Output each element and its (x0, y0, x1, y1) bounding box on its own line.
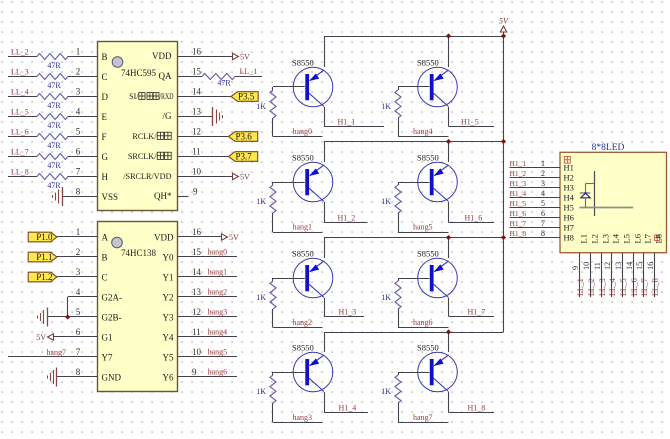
resistor 1K at Q6 base (395, 182, 401, 232)
svg-text:1K: 1K (381, 197, 391, 206)
resistor R5 47R (37, 134, 68, 140)
svg-text:/SRCLR/VDD: /SRCLR/VDD (123, 172, 171, 181)
svg-text:L8: L8 (654, 234, 664, 243)
svg-text:7: 7 (541, 219, 545, 228)
svg-text:1K: 1K (381, 293, 391, 302)
wire hang2 stub (273, 327, 323, 329)
svg-text:1K: 1K (256, 197, 266, 206)
svg-text:8: 8 (76, 186, 81, 196)
svg-text:hang4: hang4 (208, 328, 228, 337)
wire U2 pin7 Y7 hang7 (8, 356, 98, 358)
svg-text:H2: H2 (564, 172, 574, 182)
wire DS1 pin H8 (510, 237, 561, 239)
IC U2 74HC138 body (98, 222, 178, 392)
wire U1 pin14 to port P3.5 (178, 96, 232, 98)
wire DS1 pin L2 (590, 253, 592, 297)
svg-text:Y5: Y5 (163, 352, 174, 362)
wire emitter Q4 to rail (324, 332, 326, 352)
svg-text:14: 14 (192, 267, 202, 277)
wire 5V rail row 3 (324, 237, 504, 239)
wire DS1 pin L1 (579, 253, 581, 297)
U1 designator dot (112, 57, 123, 68)
wire base Q2 (273, 182, 305, 184)
wire DS1 pin H1 (510, 167, 561, 169)
wire U1 pin15 to R9 (178, 76, 203, 78)
svg-text:13: 13 (614, 262, 623, 270)
wire U2 pin4 G2A- (68, 296, 98, 298)
wire base Q5 (398, 86, 429, 88)
resistor 1K at Q7 base (395, 278, 401, 328)
svg-text:H1_6: H1_6 (510, 209, 527, 218)
svg-text:1K: 1K (381, 102, 391, 111)
svg-text:hang5: hang5 (413, 223, 433, 232)
wire collector Q1 (324, 107, 326, 127)
svg-text:12: 12 (192, 126, 201, 136)
svg-text:LL_8: LL_8 (651, 278, 660, 296)
svg-text:74HC595: 74HC595 (121, 68, 157, 78)
wire LL_6 to R5 (8, 136, 37, 138)
svg-text:1K: 1K (256, 102, 266, 111)
svg-text:E: E (102, 112, 108, 122)
svg-text:10: 10 (192, 347, 202, 357)
wire H1_2 (324, 222, 368, 224)
svg-text:5: 5 (76, 126, 81, 136)
svg-text:L4: L4 (611, 233, 621, 243)
svg-text:L5: L5 (622, 234, 632, 243)
wire H1_5 (449, 126, 495, 128)
junction bus row 2 (501, 139, 506, 144)
wire hang0 stub (273, 136, 323, 138)
svg-text:LL_5: LL_5 (11, 108, 29, 117)
transistor Q4 S8550 (293, 352, 333, 392)
svg-text:Y2: Y2 (163, 292, 174, 302)
junction rail3 right emitter (446, 235, 451, 240)
port P1.1 (28, 252, 57, 262)
svg-text:6: 6 (76, 327, 81, 337)
svg-text:H1_6: H1_6 (465, 213, 483, 222)
wire LL_2 to R1 (8, 56, 37, 58)
svg-text:16: 16 (192, 46, 202, 56)
wire P1.1 to U2 pin 2 (57, 256, 98, 258)
wire H1_1 (324, 126, 384, 128)
svg-text:3: 3 (541, 179, 545, 188)
wire base Q4 (273, 372, 305, 374)
svg-text:14: 14 (625, 262, 634, 270)
svg-text:5V: 5V (240, 173, 250, 182)
svg-text:13: 13 (192, 287, 202, 297)
svg-text:SI/: SI/ (129, 92, 139, 101)
svg-text:6: 6 (541, 209, 545, 218)
wire collector Q3 (324, 298, 326, 317)
svg-text:LL_2: LL_2 (587, 278, 596, 296)
svg-text:H1_1: H1_1 (338, 117, 356, 126)
svg-text:47R: 47R (47, 141, 61, 150)
transistor Q2 S8550 (293, 162, 333, 202)
wire emitter Q6 to rail (448, 142, 450, 163)
svg-text:Y6: Y6 (163, 372, 174, 382)
svg-text:1: 1 (76, 46, 81, 56)
svg-text:hang3: hang3 (208, 308, 228, 317)
svg-text:H7: H7 (564, 222, 574, 232)
resistor R1 47R (37, 54, 68, 60)
svg-text:hang3: hang3 (293, 413, 313, 422)
svg-text:2: 2 (76, 66, 81, 76)
svg-text:hang0: hang0 (208, 248, 228, 257)
svg-text:S8550: S8550 (417, 343, 439, 353)
svg-text:P1.1: P1.1 (36, 252, 52, 262)
wire 5V bus vertical (503, 32, 505, 332)
resistor R6 47R (37, 154, 68, 160)
wire DS1 pin L6 (633, 253, 635, 297)
wire H1_3 (324, 316, 364, 318)
svg-text:H1_5: H1_5 (461, 117, 479, 126)
wire DS1 pin H2 (510, 177, 561, 179)
wire U2 Y2 hang2 (178, 296, 238, 298)
wire U1 pin12 to port P3.6 (178, 136, 229, 138)
wire emitter Q3 to rail (324, 238, 326, 259)
svg-text:74HC138: 74HC138 (121, 248, 157, 258)
wire R9 to LL_1 (235, 76, 262, 78)
resistor 1K at Q3 base (270, 278, 276, 328)
svg-text:LL_4: LL_4 (608, 278, 617, 296)
svg-text:P3.7: P3.7 (236, 152, 253, 162)
svg-text:6: 6 (76, 146, 81, 156)
svg-text:47R: 47R (47, 81, 61, 90)
svg-text:8: 8 (541, 229, 545, 238)
port P3.6 (229, 132, 258, 142)
wire R5 to U1 pin 5 (68, 136, 98, 138)
svg-text:LL_7: LL_7 (11, 148, 29, 157)
svg-text:QH*: QH* (154, 191, 172, 201)
svg-text:3: 3 (76, 86, 81, 96)
wire hang4 stub (398, 136, 449, 138)
svg-text:H1_4: H1_4 (339, 403, 357, 412)
svg-text:H1_1: H1_1 (510, 159, 527, 168)
svg-text:Y7: Y7 (102, 352, 113, 362)
wire DS1 pin L8 (654, 253, 656, 297)
wire DS1 pin H7 (510, 227, 561, 229)
svg-text:1: 1 (541, 159, 545, 168)
svg-text:hang2: hang2 (293, 318, 313, 327)
svg-text:5V: 5V (499, 17, 509, 26)
svg-text:47R: 47R (47, 61, 61, 70)
wire U2 Y1 hang1 (178, 276, 238, 278)
svg-text:LL_6: LL_6 (11, 128, 29, 137)
port P1.0 (28, 232, 57, 242)
svg-text:hang1: hang1 (293, 223, 313, 232)
svg-text:H8: H8 (564, 232, 574, 242)
svg-text:VSS: VSS (102, 192, 119, 202)
svg-text:A: A (102, 232, 109, 242)
wire LL_4 to R3 (8, 96, 37, 98)
power port 5V at U2 pin16 (222, 234, 228, 240)
svg-text:LL_6: LL_6 (630, 278, 639, 296)
svg-text:hang5: hang5 (208, 348, 228, 357)
power port 5V top (500, 26, 506, 32)
resistor 1K at Q5 base (395, 87, 401, 137)
transistor Q5 S8550 (418, 67, 458, 107)
svg-text:15: 15 (635, 262, 644, 270)
wire U1 pin16 to 5V (178, 56, 233, 58)
resistor R3 47R (37, 94, 68, 100)
wire U2 pin8 GND (57, 376, 98, 378)
svg-text:9: 9 (571, 266, 580, 270)
svg-text:P1.0: P1.0 (36, 232, 53, 242)
wire LL_3 to R2 (8, 76, 37, 78)
svg-text:S8550: S8550 (292, 58, 314, 68)
wire DS1 pin H4 (510, 197, 561, 199)
wire base Q3 (273, 278, 305, 280)
junction rail4 right emitter (446, 329, 451, 334)
wire U2 pin16 to 5V (178, 236, 222, 238)
wire R4 to U1 pin 4 (68, 116, 98, 118)
wire DS1 pin L5 (622, 253, 624, 297)
DS1 row text (hang) (564, 157, 570, 164)
port P1.2 (28, 272, 57, 282)
svg-text:5V: 5V (229, 233, 239, 242)
svg-text:hang7: hang7 (46, 348, 66, 357)
wire 5V rail row 4 (324, 332, 504, 334)
svg-text:G: G (102, 152, 109, 162)
svg-text:L6: L6 (633, 234, 643, 243)
wire DS1 pin L3 (601, 253, 603, 297)
svg-text:SRCLK/: SRCLK/ (128, 152, 157, 161)
svg-text:1K: 1K (256, 293, 266, 302)
svg-text:F: F (102, 132, 107, 142)
svg-text:QA: QA (159, 71, 172, 81)
svg-text:S8550: S8550 (417, 249, 439, 259)
junction pin4/pin5 (65, 314, 70, 319)
wire DS1 pin H5 (510, 207, 561, 209)
transistor Q7 S8550 (418, 258, 458, 298)
wire emitter Q2 to rail (324, 142, 326, 163)
svg-text:13: 13 (192, 106, 202, 116)
svg-text:L3: L3 (601, 234, 611, 243)
svg-text:47R: 47R (47, 121, 61, 130)
LED matrix DS1 body 8*8LED (560, 152, 667, 252)
svg-text:P1.2: P1.2 (36, 272, 52, 282)
DS1 column text (lie) (655, 235, 660, 241)
wire H1_8 (449, 412, 495, 414)
svg-text:7: 7 (76, 166, 81, 176)
IC U1 74HC595 body (98, 42, 178, 211)
svg-text:VDD: VDD (152, 51, 172, 61)
junction bus row 3 (501, 235, 506, 240)
svg-text:Y0: Y0 (163, 252, 174, 262)
svg-text:1K: 1K (256, 387, 266, 396)
svg-text:hang4: hang4 (413, 127, 433, 136)
DS1 internal matrix column line (594, 171, 596, 216)
svg-text:14: 14 (192, 86, 202, 96)
wire base Q1 (273, 86, 305, 88)
transistor Q1 S8550 (293, 67, 333, 107)
wire U2 Y3 hang3 (178, 316, 238, 318)
power port 5V at U1 pin16 (233, 53, 239, 59)
ground at U2 GND (48, 368, 57, 387)
svg-text:15: 15 (192, 247, 202, 257)
svg-text:5: 5 (76, 307, 81, 317)
wire U2 pin5 G2B- (47, 316, 97, 318)
wire hang1 stub (273, 232, 323, 234)
wire P1.0 to U2 pin 1 (57, 236, 98, 238)
wire emitter Q8 to rail (448, 332, 450, 352)
svg-text:LL_5: LL_5 (619, 278, 628, 296)
svg-text:11: 11 (192, 327, 201, 337)
svg-text:H1_7: H1_7 (510, 219, 527, 228)
wire pin4 down to pin5 (67, 297, 69, 317)
svg-text:S8550: S8550 (292, 249, 314, 259)
resistor R2 47R (37, 74, 68, 80)
svg-text:hang7: hang7 (413, 413, 433, 422)
ground at U2 G2B- (38, 308, 48, 327)
wire collector Q8 (448, 392, 450, 413)
svg-text:H1_2: H1_2 (338, 213, 356, 222)
svg-text:Y3: Y3 (163, 312, 174, 322)
wire hang5 stub (398, 232, 449, 234)
svg-text:LL_3: LL_3 (11, 68, 29, 77)
svg-text:H3: H3 (564, 182, 574, 192)
svg-text:5: 5 (541, 199, 545, 208)
wire collector Q6 (448, 202, 450, 223)
svg-text:1: 1 (76, 227, 81, 237)
wire gnd to U1 pin 8 (62, 196, 97, 198)
wire collector Q7 (448, 298, 450, 317)
wire emitter Q5 to rail (448, 36, 450, 67)
wire emitter Q7 to rail (448, 238, 450, 259)
svg-text:C: C (102, 272, 108, 282)
DS1 internal LED element (580, 184, 595, 208)
svg-text:H: H (102, 172, 109, 182)
svg-text:S8550: S8550 (292, 153, 314, 163)
svg-text:47R: 47R (47, 101, 61, 110)
svg-text:9: 9 (192, 367, 197, 377)
resistor 1K at Q8 base (395, 372, 401, 423)
svg-text:Y1: Y1 (163, 272, 174, 282)
U2 designator dot (112, 237, 123, 248)
wire DS1 pin L4 (611, 253, 613, 297)
junction bus row 1 (501, 33, 506, 38)
wire stub U1 pin9 QH* (178, 196, 189, 198)
svg-text:8*8LED: 8*8LED (592, 143, 625, 153)
svg-text:hang1: hang1 (208, 268, 228, 277)
ground at U1 pin13 (213, 107, 223, 126)
wire H1_6 (449, 222, 495, 224)
port P3.7 (229, 152, 258, 162)
wire U2 pin6 G1 (54, 336, 98, 338)
svg-text:RCLK/: RCLK/ (132, 132, 157, 141)
resistor R9 47R (202, 74, 235, 80)
svg-text:H1: H1 (564, 162, 574, 172)
wire DS1 pin L7 (643, 253, 645, 297)
wire P1.2 to U2 pin 3 (57, 276, 98, 278)
svg-text:1K: 1K (381, 387, 391, 396)
svg-text:D: D (102, 92, 109, 102)
svg-text:/RXD: /RXD (159, 92, 173, 101)
svg-text:2: 2 (541, 169, 545, 178)
svg-text:S8550: S8550 (292, 343, 314, 353)
ground at U1 VSS (53, 187, 63, 206)
wire U2 Y0 hang0 (178, 256, 238, 258)
wire LL_5 to R4 (8, 116, 37, 118)
svg-text:G1: G1 (102, 332, 113, 342)
svg-text:P3.5: P3.5 (238, 92, 255, 102)
svg-text:11: 11 (593, 262, 602, 270)
svg-text:LL_1: LL_1 (240, 67, 258, 76)
svg-text:10: 10 (192, 166, 202, 176)
svg-text:H1_2: H1_2 (510, 169, 527, 178)
svg-text:B: B (102, 52, 108, 62)
svg-text:LL_2: LL_2 (11, 48, 29, 57)
resistor 1K at Q1 base (270, 87, 276, 137)
resistor 1K at Q2 base (270, 182, 276, 232)
svg-text:47R: 47R (47, 161, 61, 170)
svg-text:L2: L2 (590, 234, 600, 243)
svg-text:LL_4: LL_4 (11, 88, 29, 97)
svg-text:H1_5: H1_5 (510, 199, 527, 208)
wire base Q7 (398, 278, 429, 280)
wire base Q6 (398, 182, 429, 184)
wire 5V rail row 1 (324, 36, 504, 38)
wire R1 to U1 pin 1 (68, 56, 98, 58)
svg-text:hang0: hang0 (293, 127, 313, 136)
wire R7 to U1 pin 7 (68, 176, 98, 178)
resistor R4 47R (37, 114, 68, 120)
wire U2 Y4 hang4 (178, 336, 238, 338)
svg-text:P3.6: P3.6 (236, 132, 253, 142)
svg-text:12: 12 (603, 262, 612, 270)
wire R3 to U1 pin 3 (68, 96, 98, 98)
svg-text:7: 7 (76, 347, 81, 357)
wire DS1 pin H3 (510, 187, 561, 189)
wire LL_7 to R6 (8, 156, 37, 158)
wire hang6 stub (398, 327, 449, 329)
svg-text:L1: L1 (579, 234, 589, 243)
wire H1_4 (324, 412, 368, 414)
wire collector Q2 (324, 202, 326, 223)
wire U1 pin11 to port P3.7 (178, 156, 229, 158)
svg-text:H1_8: H1_8 (468, 403, 486, 412)
svg-text:VDD: VDD (154, 232, 174, 242)
svg-text:G2B-: G2B- (102, 312, 122, 322)
svg-text:hang6: hang6 (413, 318, 433, 327)
transistor Q3 S8550 (293, 258, 333, 298)
wire R2 to U1 pin 2 (68, 76, 98, 78)
svg-text:16: 16 (192, 227, 202, 237)
svg-text:GND: GND (102, 372, 122, 382)
svg-text:Y4: Y4 (163, 332, 174, 342)
port P3.5 (231, 92, 258, 102)
svg-text:9: 9 (193, 186, 198, 196)
svg-text:hang2: hang2 (208, 288, 228, 297)
svg-text:LL_1: LL_1 (576, 278, 585, 296)
wire U2 Y6 hang6 (178, 376, 238, 378)
transistor Q8 S8550 (418, 352, 458, 392)
svg-text:LL_3: LL_3 (598, 278, 607, 296)
svg-text:L7: L7 (643, 234, 653, 243)
wire base Q8 (398, 372, 429, 374)
resistor 1K at Q4 base (270, 372, 276, 423)
svg-text:5V: 5V (36, 333, 46, 342)
svg-text:G2A-: G2A- (102, 292, 123, 302)
junction rail1 right emitter (446, 33, 451, 38)
svg-text:H6: H6 (564, 212, 574, 222)
svg-text:H1_8: H1_8 (510, 229, 527, 238)
svg-text:H1_3: H1_3 (339, 307, 357, 316)
svg-text:10: 10 (582, 262, 591, 270)
svg-text:H1_7: H1_7 (468, 307, 486, 316)
svg-text:C: C (102, 72, 108, 82)
wire hang7 stub (398, 422, 449, 424)
